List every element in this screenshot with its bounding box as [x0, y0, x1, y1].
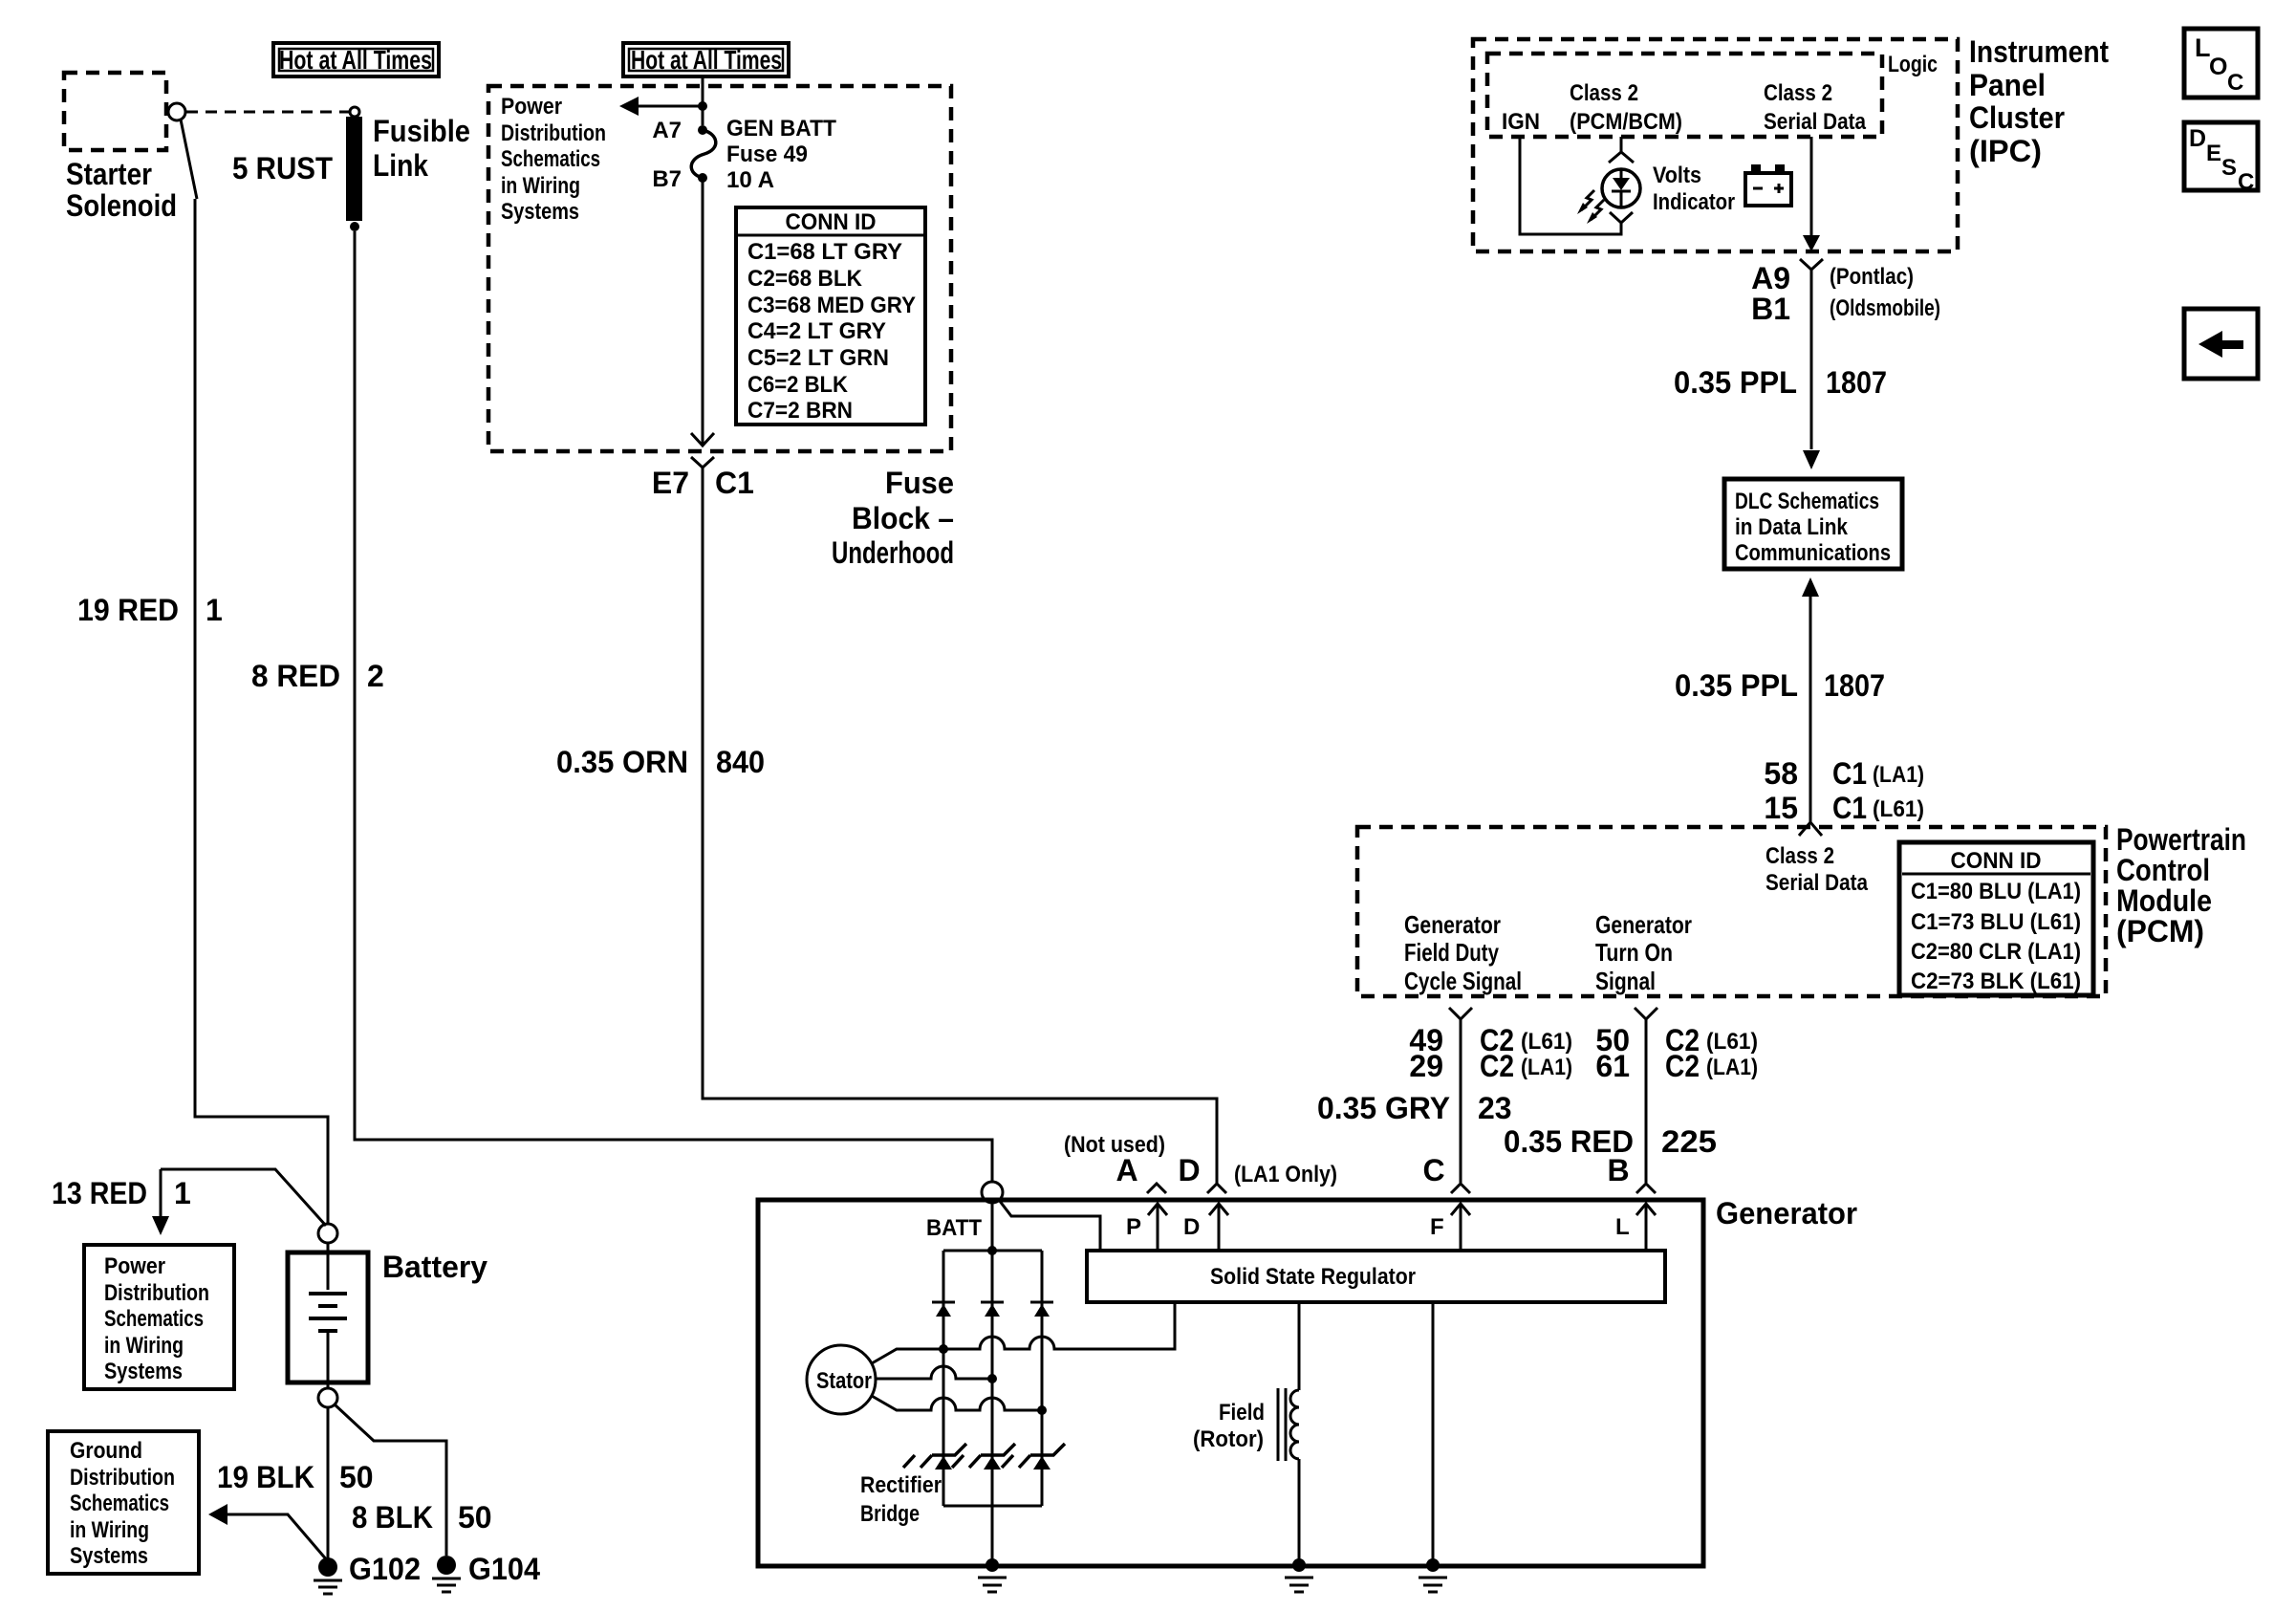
- svg-text:(L61): (L61): [1521, 1029, 1572, 1055]
- svg-text:C4=2 LT GRY: C4=2 LT GRY: [747, 318, 886, 344]
- svg-text:(L61): (L61): [1873, 796, 1924, 822]
- svg-text:Stator: Stator: [816, 1368, 872, 1394]
- svg-text:C2: C2: [1665, 1049, 1700, 1083]
- svg-text:(IPC): (IPC): [1969, 134, 2042, 168]
- svg-text:C: C: [2238, 169, 2254, 195]
- svg-text:Fuse 49: Fuse 49: [726, 142, 808, 167]
- svg-text:Serial Data: Serial Data: [1765, 870, 1869, 896]
- svg-text:Systems: Systems: [70, 1543, 148, 1569]
- svg-text:Field Duty: Field Duty: [1404, 938, 1499, 967]
- svg-text:Distribution: Distribution: [104, 1280, 209, 1306]
- svg-text:B: B: [1607, 1153, 1629, 1187]
- svg-text:29: 29: [1409, 1049, 1443, 1083]
- svg-text:B7: B7: [652, 166, 682, 192]
- svg-text:19 RED: 19 RED: [77, 593, 179, 627]
- svg-text:L: L: [1615, 1214, 1630, 1240]
- svg-text:Battery: Battery: [382, 1250, 487, 1284]
- svg-text:50: 50: [458, 1500, 492, 1535]
- svg-text:(PCM/BCM): (PCM/BCM): [1570, 109, 1682, 135]
- svg-text:10 A: 10 A: [726, 167, 774, 193]
- svg-text:C1=73 BLU (L61): C1=73 BLU (L61): [1911, 909, 2081, 935]
- svg-text:Fuse: Fuse: [885, 466, 954, 500]
- svg-text:225: 225: [1661, 1124, 1717, 1159]
- svg-text:Hot at All Times: Hot at All Times: [279, 45, 432, 75]
- svg-text:Class 2: Class 2: [1764, 80, 1832, 106]
- svg-text:Schematics: Schematics: [104, 1306, 204, 1332]
- svg-text:GEN BATT: GEN BATT: [726, 116, 836, 142]
- svg-text:B1: B1: [1751, 292, 1790, 326]
- svg-text:C5=2 LT GRN: C5=2 LT GRN: [747, 345, 889, 371]
- svg-text:Underhood: Underhood: [832, 535, 954, 570]
- svg-text:in Wiring: in Wiring: [501, 173, 580, 199]
- svg-text:Schematics: Schematics: [501, 146, 600, 172]
- svg-text:S: S: [2221, 155, 2237, 181]
- svg-text:Link: Link: [373, 148, 428, 183]
- svg-text:0.35 ORN: 0.35 ORN: [556, 745, 688, 779]
- svg-text:E: E: [2206, 141, 2221, 166]
- svg-text:Cycle Signal: Cycle Signal: [1404, 967, 1522, 995]
- svg-text:Class 2: Class 2: [1765, 843, 1834, 869]
- svg-text:8 RED: 8 RED: [251, 659, 340, 693]
- svg-text:Indicator: Indicator: [1653, 189, 1735, 215]
- svg-text:O: O: [2209, 54, 2227, 80]
- svg-text:(Oldsmobile): (Oldsmobile): [1830, 295, 1940, 321]
- svg-text:Distribution: Distribution: [501, 120, 606, 146]
- svg-text:0.35 PPL: 0.35 PPL: [1674, 365, 1797, 400]
- svg-text:1807: 1807: [1826, 365, 1887, 400]
- svg-text:G102: G102: [349, 1552, 421, 1586]
- svg-text:CONN ID: CONN ID: [786, 209, 877, 235]
- svg-text:Power: Power: [104, 1253, 165, 1279]
- svg-text:1: 1: [174, 1176, 191, 1210]
- svg-text:C1: C1: [715, 466, 754, 500]
- svg-text:A7: A7: [652, 118, 682, 143]
- svg-text:19 BLK: 19 BLK: [217, 1460, 314, 1494]
- svg-text:(Not used): (Not used): [1064, 1132, 1165, 1158]
- svg-text:C7=2 BRN: C7=2 BRN: [747, 398, 853, 424]
- svg-text:Logic: Logic: [1888, 52, 1938, 77]
- svg-text:G104: G104: [468, 1552, 540, 1586]
- svg-text:50: 50: [339, 1460, 374, 1494]
- svg-text:F: F: [1430, 1214, 1444, 1240]
- svg-text:C2: C2: [1480, 1049, 1514, 1083]
- svg-text:Control: Control: [2116, 853, 2210, 887]
- svg-text:C: C: [1422, 1153, 1444, 1187]
- svg-text:Turn On: Turn On: [1595, 938, 1673, 967]
- svg-text:Rectifier: Rectifier: [860, 1472, 942, 1498]
- svg-text:D: D: [1183, 1214, 1200, 1240]
- svg-text:Instrument: Instrument: [1969, 34, 2109, 69]
- svg-text:13 RED: 13 RED: [52, 1176, 147, 1210]
- svg-text:Block –: Block –: [852, 501, 954, 535]
- svg-text:D: D: [1178, 1153, 1200, 1187]
- svg-text:Panel: Panel: [1969, 68, 2046, 102]
- svg-text:CONN ID: CONN ID: [1951, 848, 2042, 874]
- svg-text:C1=80 BLU (LA1): C1=80 BLU (LA1): [1911, 879, 2081, 904]
- svg-text:Hot at All Times: Hot at All Times: [631, 45, 782, 75]
- svg-text:2: 2: [367, 659, 384, 693]
- svg-text:IGN: IGN: [1502, 109, 1540, 135]
- svg-text:D: D: [2189, 125, 2206, 152]
- svg-text:Generator: Generator: [1716, 1196, 1857, 1230]
- svg-text:Class 2: Class 2: [1570, 80, 1638, 106]
- svg-text:5 RUST: 5 RUST: [232, 151, 333, 185]
- svg-text:P: P: [1126, 1214, 1141, 1240]
- svg-text:1807: 1807: [1824, 668, 1885, 703]
- svg-text:C6=2 BLK: C6=2 BLK: [747, 372, 849, 398]
- svg-text:C2=68 BLK: C2=68 BLK: [747, 266, 863, 292]
- svg-text:Starter: Starter: [66, 157, 152, 191]
- svg-text:C1: C1: [1832, 791, 1867, 825]
- svg-text:Solenoid: Solenoid: [66, 188, 177, 223]
- svg-text:DLC Schematics: DLC Schematics: [1735, 489, 1879, 514]
- svg-text:in Wiring: in Wiring: [104, 1333, 184, 1359]
- svg-text:(L61): (L61): [1706, 1029, 1758, 1055]
- svg-text:A: A: [1116, 1153, 1137, 1187]
- svg-text:Generator: Generator: [1595, 910, 1692, 939]
- svg-text:15: 15: [1764, 791, 1798, 825]
- svg-text:840: 840: [716, 745, 765, 779]
- svg-text:0.35 PPL: 0.35 PPL: [1675, 668, 1798, 703]
- svg-text:Distribution: Distribution: [70, 1465, 175, 1491]
- svg-text:(Pontlac): (Pontlac): [1830, 264, 1914, 290]
- svg-text:E7: E7: [652, 466, 689, 500]
- svg-text:in Wiring: in Wiring: [70, 1517, 149, 1543]
- svg-text:C1=68 LT GRY: C1=68 LT GRY: [747, 239, 902, 265]
- svg-text:Powertrain: Powertrain: [2116, 822, 2246, 857]
- svg-text:23: 23: [1478, 1091, 1512, 1125]
- svg-text:Signal: Signal: [1595, 967, 1656, 995]
- svg-text:Schematics: Schematics: [70, 1491, 169, 1516]
- svg-text:Volts: Volts: [1653, 163, 1701, 188]
- svg-text:(LA1): (LA1): [1706, 1055, 1758, 1080]
- svg-text:Serial Data: Serial Data: [1764, 109, 1867, 135]
- svg-text:Module: Module: [2116, 883, 2212, 918]
- svg-text:1: 1: [206, 593, 223, 627]
- svg-text:Bridge: Bridge: [860, 1501, 920, 1527]
- svg-text:Ground: Ground: [70, 1438, 142, 1464]
- svg-text:61: 61: [1595, 1049, 1630, 1083]
- svg-text:Systems: Systems: [501, 199, 579, 225]
- svg-text:(PCM): (PCM): [2116, 914, 2204, 948]
- svg-text:Cluster: Cluster: [1969, 100, 2065, 135]
- svg-text:BATT: BATT: [926, 1215, 982, 1241]
- svg-text:8 BLK: 8 BLK: [352, 1500, 433, 1535]
- svg-text:Fusible: Fusible: [373, 114, 470, 148]
- svg-text:C: C: [2227, 70, 2243, 96]
- svg-text:Power: Power: [501, 94, 562, 120]
- svg-text:Systems: Systems: [104, 1359, 183, 1384]
- svg-text:Generator: Generator: [1404, 910, 1501, 939]
- svg-text:58: 58: [1764, 756, 1798, 791]
- svg-text:(LA1): (LA1): [1873, 762, 1924, 788]
- svg-text:C1: C1: [1832, 756, 1867, 791]
- svg-text:in Data Link: in Data Link: [1735, 514, 1849, 540]
- svg-text:C3=68 MED GRY: C3=68 MED GRY: [747, 293, 916, 318]
- svg-text:(LA1): (LA1): [1521, 1055, 1572, 1080]
- svg-text:0.35 GRY: 0.35 GRY: [1317, 1091, 1450, 1125]
- svg-text:C2=80 CLR (LA1): C2=80 CLR (LA1): [1911, 939, 2081, 965]
- svg-text:Communications: Communications: [1735, 540, 1891, 566]
- svg-text:(Rotor): (Rotor): [1193, 1426, 1264, 1452]
- svg-text:A9: A9: [1751, 261, 1790, 295]
- svg-text:Field: Field: [1219, 1400, 1265, 1426]
- svg-text:(LA1 Only): (LA1 Only): [1234, 1162, 1337, 1187]
- svg-text:Solid State Regulator: Solid State Regulator: [1210, 1264, 1416, 1290]
- svg-text:C2=73 BLK (L61): C2=73 BLK (L61): [1911, 969, 2081, 994]
